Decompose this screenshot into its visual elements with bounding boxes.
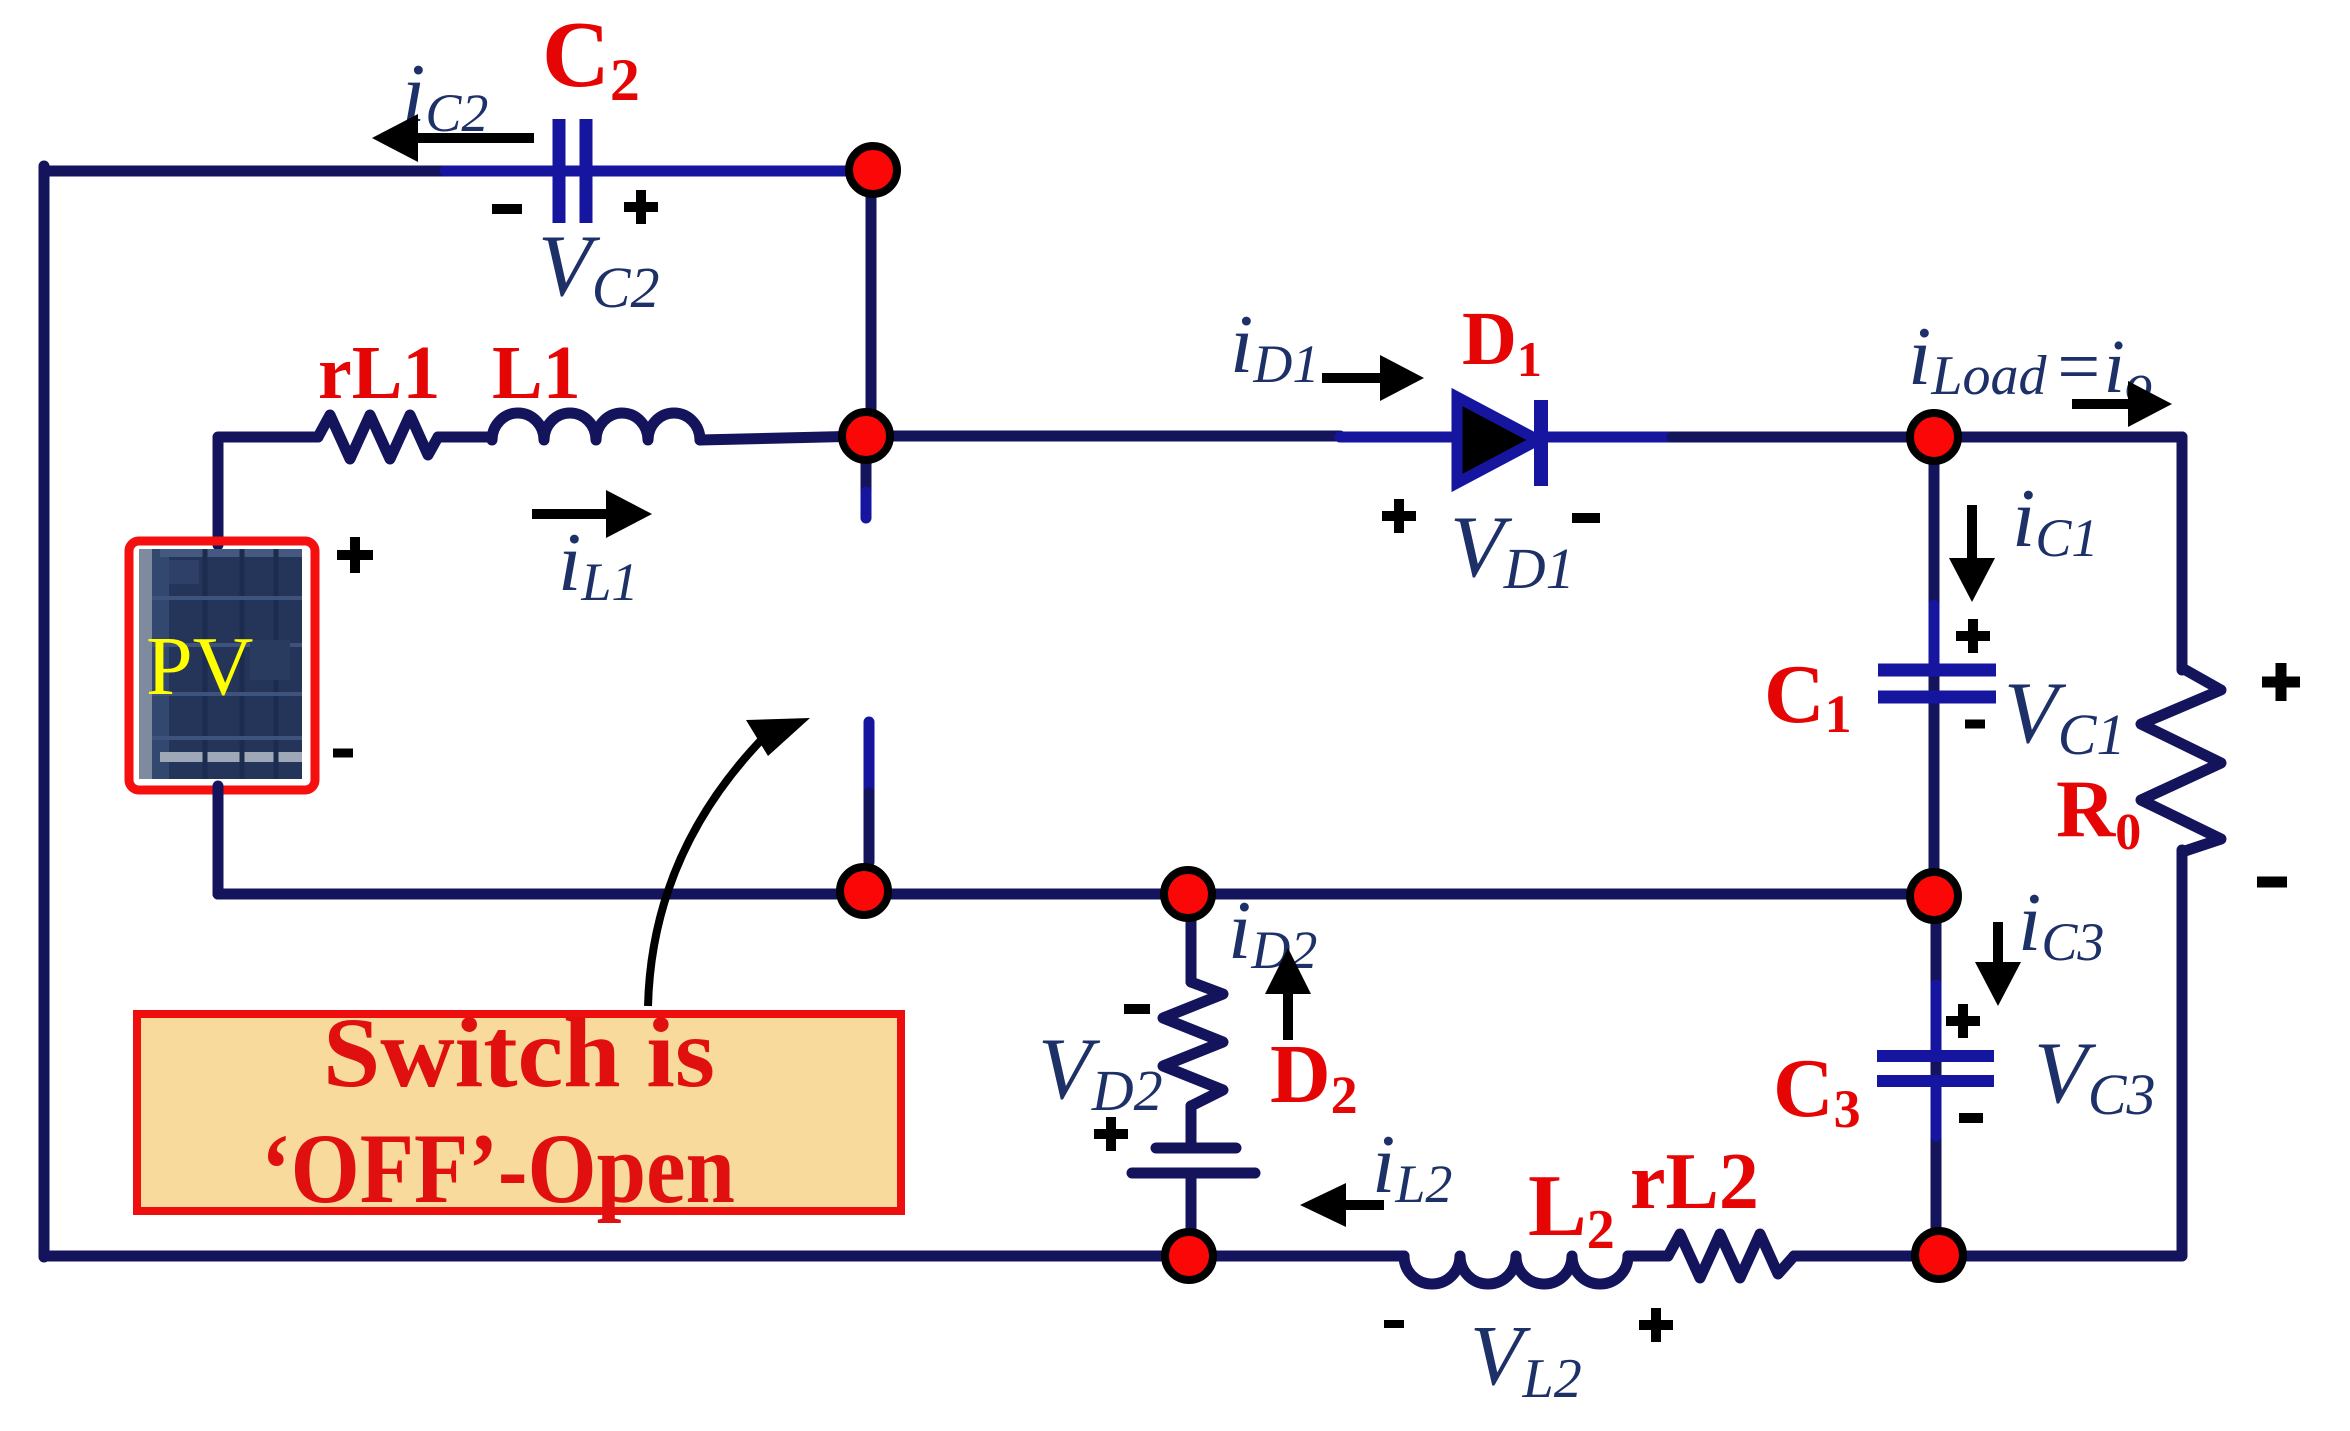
wire L1 to node N2 (700, 436, 866, 440)
wire C1 lead (1929, 437, 1940, 894)
minus of VL2 (1384, 1320, 1404, 1328)
arrow iC1 (1949, 505, 1995, 602)
wire main top (node N2 to diode) (866, 431, 1340, 442)
node N3 (1910, 413, 1958, 461)
node N2 (842, 412, 890, 460)
capacitor C3 (1877, 1056, 1994, 1081)
wire C3 upper lead bright (1931, 985, 1942, 1052)
minus of VD1 (1572, 513, 1600, 523)
wire right vertical lower (1939, 850, 2182, 1256)
wire bottom horizontal (left of L2) (44, 1251, 1404, 1262)
plus of VD2 (1094, 1117, 1128, 1151)
PV module (129, 541, 315, 790)
svg-text:rL1: rL1 (318, 331, 440, 415)
wire left vertical (39, 166, 50, 1257)
resistor rL2 (1668, 1234, 1794, 1278)
minus of VC3 (1959, 1113, 1983, 1123)
diode D2 battery bar short (1156, 1143, 1236, 1154)
inductor L1 (492, 413, 700, 440)
svg-text:PV: PV (146, 620, 253, 713)
svg-text:rL2: rL2 (1630, 1138, 1759, 1226)
plus of VC1 (1956, 619, 1990, 653)
arrow iL1 (532, 490, 652, 538)
wire D2 upper lead (1186, 894, 1197, 982)
plus of VD1 (1382, 499, 1416, 533)
svg-text:‘OFF’-Open: ‘OFF’-Open (261, 1113, 735, 1224)
node N5 (1164, 870, 1212, 918)
wire D2 lower lead (1186, 1178, 1197, 1256)
capacitor C1 (1878, 670, 1996, 697)
minus of VC1 (1965, 720, 1985, 729)
wire C3 lead (1931, 894, 1942, 1256)
svg-text:L1: L1 (492, 331, 581, 415)
diode D2 battery bar long (1132, 1168, 1255, 1179)
wire C1 upper lead bright (1929, 605, 1940, 662)
wire between rL1 and L1 (438, 432, 492, 443)
wire C3 lower lead bright (1931, 1086, 1942, 1136)
arrow iLoad (2072, 381, 2172, 427)
arrow iD1 (1322, 355, 1424, 401)
wire node N1 to node N2 vertical (866, 190, 877, 418)
wire PV top lead (218, 437, 318, 545)
switch blade (blue) (864, 722, 875, 793)
resistor rL1 (318, 415, 438, 459)
wire top-left horizontal bright to node N1 (445, 166, 873, 177)
wire middle horizontal (218, 889, 1934, 900)
node N4 (840, 867, 888, 915)
resistor R0 (2141, 668, 2221, 852)
switch top stub (navy) (861, 458, 872, 492)
node N1 (849, 146, 897, 194)
arrow iD2 (1265, 948, 1311, 1040)
diode D2 resistor-model zigzag (1163, 982, 1223, 1106)
diode D1 (1457, 397, 1541, 486)
arrow iC3 (1975, 922, 2021, 1006)
plus of VL2 (1639, 1308, 1673, 1342)
plus of VC3 (1946, 1004, 1980, 1038)
wire bright before diode (1340, 432, 1457, 443)
node N7 (1165, 1232, 1213, 1280)
minus of R0 (2257, 877, 2287, 888)
wire PV bottom lead (213, 786, 224, 894)
annotation box: Switch is 'OFF'-Open (137, 997, 901, 1224)
wire between L2 and rL2 (1628, 1251, 1668, 1262)
wire rL2 to node N8 (1794, 1251, 1939, 1262)
wire bright after diode (1548, 432, 1672, 443)
plus of PV (337, 537, 373, 573)
arrow iC2 (372, 114, 534, 162)
svg-text:Switch is: Switch is (323, 997, 715, 1108)
switch top stub (blue) (861, 492, 872, 518)
inductor L2 (1404, 1256, 1628, 1284)
curved annotation arrow (648, 718, 810, 1006)
capacitor C2 (559, 119, 586, 223)
wire top-left horizontal (left part) (44, 166, 445, 177)
wire right vertical upper (2177, 437, 2188, 670)
wire D2 mid lead (1186, 1106, 1197, 1143)
minus of VC2 (492, 204, 522, 214)
switch blade (navy) (864, 793, 875, 862)
node N8 (1915, 1231, 1963, 1279)
plus of R0 (2262, 663, 2300, 701)
node N6 (1910, 872, 1958, 920)
minus of VD2 (1124, 1004, 1150, 1014)
arrow iL2 (1300, 1183, 1384, 1227)
wire diode to node N3 (1672, 432, 1934, 443)
minus of PV (333, 749, 353, 758)
plus of VC2 (624, 190, 658, 224)
wire top-right horizontal (1934, 432, 2182, 443)
